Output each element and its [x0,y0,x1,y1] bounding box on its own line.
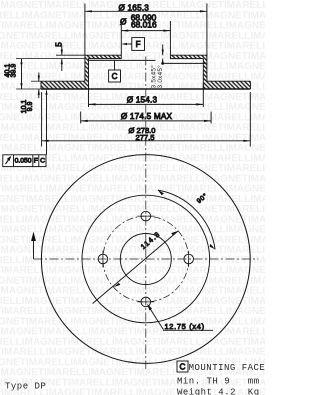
horizontal centerline [34,258,259,260]
svg-text:277.5: 277.5 [135,133,154,142]
center bore Ø68 [120,234,171,285]
bolt hole E [184,254,194,264]
bolt circle Ø114.3 (dash-dot) [103,216,189,302]
svg-text:F: F [136,40,141,49]
dimension Ø174.5 MAX [81,112,211,124]
svg-text:C: C [112,72,118,81]
bolt hole W [98,254,108,264]
datum F box [121,38,144,51]
svg-text:Min. TH 9 mm: Min. TH 9 mm [177,377,260,387]
runout tolerance frame 0.050 F C [3,89,48,167]
svg-text:68.016: 68.016 [131,19,157,29]
C MOUNTING FACE label [177,361,265,373]
svg-text:Weight 4.2 Kg: Weight 4.2 Kg [177,388,260,395]
section outline left [41,55,121,89]
bolt hole S [141,297,151,307]
dimension Ø154.3 [89,84,204,107]
90 degree angle dimension arc [158,190,215,249]
svg-text:C: C [179,363,185,372]
svg-text:C: C [40,158,45,165]
hat plate left (hatched) [85,55,121,58]
hat circle Ø165-170 [82,195,210,323]
svg-text:Type DP: Type DP [5,382,46,392]
hat wall left (hatched) [85,59,89,82]
bolt hole ticks [138,215,155,217]
dimension 5 (plate thickness) [16,42,85,71]
friction ring right (hatched) [203,81,250,89]
hat plate right (hatched) [170,55,207,58]
svg-text:39.9: 39.9 [11,64,18,78]
svg-text:Ø 154.3: Ø 154.3 [127,96,158,105]
left up-arrow marker on centerline [31,232,36,260]
friction ring left (hatched) [41,81,89,89]
svg-text:9.9: 9.9 [27,102,34,112]
dimension Ø68.090/68.016 [120,13,170,55]
svg-text:3.0x45°: 3.0x45° [156,65,164,89]
svg-text:Ø 165.3: Ø 165.3 [119,3,150,12]
leader from frame to friction surface [46,91,48,155]
svg-text:MOUNTING FACE: MOUNTING FACE [189,363,265,373]
svg-text:5: 5 [54,42,63,47]
section bottom face line [41,88,250,90]
svg-text:0.050: 0.050 [15,158,32,165]
vertical centerline [145,57,147,370]
datum C box (section) [89,60,156,82]
section outline right [170,55,250,89]
svg-text:Ø 174.5 MAX: Ø 174.5 MAX [121,112,173,121]
svg-text:12.75 (x4): 12.75 (x4) [165,322,205,331]
bolt hole leader 12.75 (x4) [147,304,213,331]
dimension Ø165.3 [85,3,207,55]
svg-text:Ø: Ø [120,17,127,27]
dimension 40.1/39.9 (total height) [4,59,41,89]
hat wall right (hatched) [203,59,207,82]
chamfer dimension 3.5/3.0 x45 [150,44,206,88]
dimension Ø114.3 bolt circle (diagonal) [93,231,179,304]
dimension 10.1/9.9 (ring thickness) [21,73,41,114]
outer circle Ø278 [41,155,250,364]
dimension Ø278.0/277.5 [42,92,251,147]
bolt hole N [141,211,151,221]
svg-text:F: F [34,158,38,165]
